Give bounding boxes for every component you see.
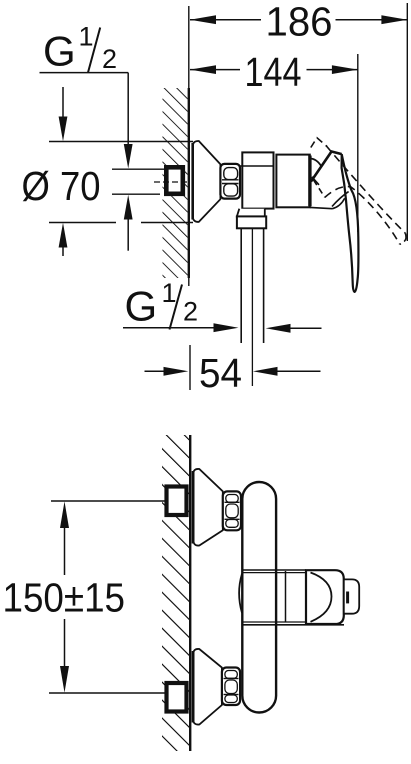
lower square fitting (front view) <box>167 683 187 712</box>
dimension 186 <box>190 15 408 24</box>
label G 1/2 (bottom, hose thread) <box>125 278 199 330</box>
G1/2 leader arrow right to pipe <box>123 327 221 329</box>
Ø70 extension lines <box>49 141 193 143</box>
escutcheon cone (side view) <box>193 141 221 222</box>
cartridge dome corner <box>310 159 322 167</box>
body section 1 (side view) <box>242 152 273 208</box>
outlet bulge left of capsule <box>239 574 242 613</box>
G1/2 opposing arrow left <box>283 327 322 329</box>
dashed centerline through fitting <box>154 181 187 183</box>
150 dim line with arrows <box>64 528 66 575</box>
svg-text:1: 1 <box>79 21 94 51</box>
svg-text:G: G <box>43 28 76 75</box>
upper square fitting (front view) <box>167 487 187 516</box>
svg-text:G: G <box>125 283 158 330</box>
handle cap (front view) <box>306 570 344 624</box>
hex nut (side view) <box>220 164 240 199</box>
body bottom cover line <box>310 207 333 208</box>
union square fitting in wall (side view) <box>166 167 183 194</box>
svg-text:1: 1 <box>162 278 177 308</box>
186 extension line (right) <box>406 3 408 241</box>
hose union nut <box>237 216 266 228</box>
body section 2 / cartridge housing (side view) <box>276 155 309 208</box>
lever hub (solid) <box>311 152 342 182</box>
handle hub lines (front view) <box>243 569 307 571</box>
body capsule (front view) <box>242 482 276 713</box>
handle cap crescent <box>311 573 332 622</box>
G1/2 leader arrow down to pipe top <box>127 73 129 150</box>
label G 1/2 (top left) <box>40 21 129 74</box>
outlet stub under body <box>237 209 265 217</box>
wall hatch (front view) <box>162 435 190 751</box>
knob tick <box>346 592 349 604</box>
lever armpit curve <box>333 198 345 208</box>
lever dashed (raised position) <box>311 138 406 245</box>
svg-text:150±15: 150±15 <box>3 575 126 621</box>
pipe stub lines (G1/2 thread) <box>112 168 164 170</box>
wall face line / extension line (side view) <box>188 6 190 88</box>
pipe centerline <box>251 228 253 386</box>
G1/2 opposing arrow up to pipe bottom <box>127 214 129 251</box>
dimension 144 <box>190 65 358 74</box>
Ø70 dim arrows <box>62 87 64 122</box>
svg-text:2: 2 <box>102 44 117 74</box>
outlet pipe lines <box>240 228 242 343</box>
wall face extension stub below wall <box>188 278 190 286</box>
wall face line (front view) <box>189 435 191 751</box>
svg-text:2: 2 <box>183 297 198 327</box>
wall hatch (side view) <box>163 88 188 278</box>
lower hex nut (front view) <box>222 668 240 706</box>
144 extension line (right) <box>357 54 359 232</box>
upper escutcheon (front view) <box>193 469 223 546</box>
handle knob (front view) <box>344 579 359 613</box>
svg-text:54: 54 <box>199 350 242 396</box>
lower escutcheon (front view) <box>193 649 222 725</box>
dimension 54 <box>145 370 172 372</box>
150 dim extension lines <box>51 500 165 502</box>
lever blade (solid, hanging) <box>342 154 359 292</box>
svg-text:Ø 70: Ø 70 <box>22 163 101 209</box>
wall face extension segment near 54 dim <box>189 345 191 390</box>
upper hex nut (front view) <box>223 491 241 530</box>
svg-text:144: 144 <box>245 49 302 95</box>
svg-text:186: 186 <box>266 0 333 45</box>
